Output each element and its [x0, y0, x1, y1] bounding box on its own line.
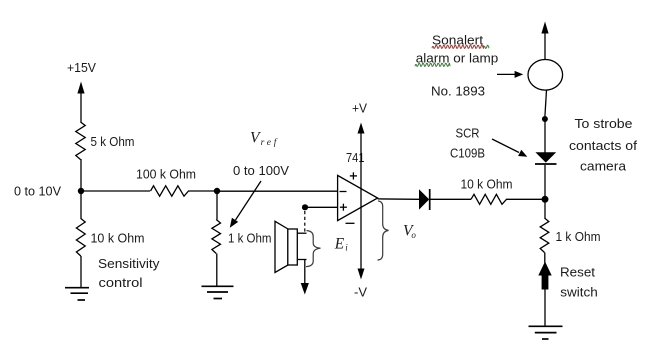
svg-text:0 to 100V: 0 to 100V: [233, 163, 289, 178]
resistor R2 10k sensitivity: [76, 191, 85, 256]
wire R4 to ground: [216, 254, 218, 287]
svg-text:E: E: [334, 235, 345, 252]
label Vo: [403, 223, 416, 241]
resistor R6 1k: [540, 218, 549, 253]
op-amp U1 741: [338, 175, 378, 220]
svg-text:contacts of: contacts of: [569, 138, 637, 153]
svg-text:camera: camera: [580, 159, 627, 174]
label Reset switch: [560, 265, 598, 300]
wire R3 to node B: [188, 190, 217, 192]
svg-text:To strobe: To strobe: [575, 116, 633, 131]
svg-text:10 k Ohm: 10 k Ohm: [91, 231, 145, 246]
svg-text:+V: +V: [352, 101, 367, 116]
callout arrow to SCR: [492, 139, 527, 157]
spellcheck squiggle red (Sonalert): [432, 45, 484, 48]
output arrow (top): [541, 22, 548, 60]
svg-text:100 k Ohm: 100 k Ohm: [136, 166, 196, 181]
svg-text:SCR: SCR: [456, 126, 480, 141]
resistor R4 1k: [212, 191, 221, 254]
sonalert lamp symbol: [528, 60, 563, 91]
ground (middle): [202, 286, 234, 298]
svg-text:o: o: [411, 230, 416, 240]
label SCR C109B: [450, 126, 485, 161]
svg-text:switch: switch: [560, 285, 598, 300]
op-amp inverting input sign: [340, 191, 347, 193]
node A (0 to 10V junction): [78, 188, 84, 194]
label Vref: [250, 129, 278, 148]
svg-text:10 k Ohm: 10 k Ohm: [461, 176, 513, 191]
SCR Q1 C109B: [535, 152, 557, 164]
svg-text:control: control: [99, 275, 143, 290]
op-amp +V pin sign: [350, 172, 357, 179]
wire node E to SCR: [544, 121, 546, 153]
wire microphone to arrow: [301, 260, 309, 295]
resistor R1 5k: [76, 122, 85, 160]
+15V arrow: [77, 82, 84, 123]
wire SCR to node D: [544, 165, 546, 200]
label Sonalert alarm or lamp No. 1893: [416, 33, 499, 99]
grammar squiggle green (alarm): [415, 63, 450, 66]
svg-text:+15V: +15V: [67, 60, 96, 75]
microphone terminals: [297, 233, 306, 259]
node D (SCR cathode junction): [542, 196, 549, 203]
label Ei: [334, 235, 348, 252]
node E: [542, 116, 548, 122]
diode D1: [419, 189, 430, 210]
-V supply arrow: [358, 198, 365, 280]
svg-text:-V: -V: [354, 285, 367, 300]
label Sensitivity control: [98, 256, 160, 290]
svg-text:1 k Ohm: 1 k Ohm: [228, 230, 272, 245]
wire node D to R6: [544, 199, 546, 219]
resistor R5 10k: [471, 194, 507, 204]
svg-text:C109B: C109B: [450, 146, 485, 161]
wire non-inverting input: [305, 206, 338, 208]
wire R2 to ground: [80, 256, 82, 288]
ground (left): [65, 288, 89, 300]
node C (Ei pickup): [302, 204, 308, 210]
svg-text:5 k Ohm: 5 k Ohm: [91, 134, 135, 149]
svg-text:1 k Ohm: 1 k Ohm: [556, 229, 601, 244]
brace Vo: [378, 201, 389, 260]
svg-text:Sensitivity: Sensitivity: [98, 256, 160, 271]
callout arrow to lamp: [497, 71, 523, 78]
wire op-amp output: [378, 198, 419, 200]
svg-text:ref: ref: [261, 137, 278, 148]
wire D1 to R5: [430, 198, 471, 200]
svg-text:0 to 10V: 0 to 10V: [14, 183, 61, 198]
microphone (speaker) body: [275, 221, 297, 272]
svg-text:No. 1893: No. 1893: [431, 84, 485, 99]
label To strobe contacts of camera: [569, 116, 637, 173]
wire R1 to node A: [80, 159, 82, 191]
svg-text:Reset: Reset: [560, 265, 595, 280]
wire R5 to node D: [506, 198, 545, 200]
wire node B to op-amp inverting input: [217, 190, 338, 192]
node B (Vref node): [214, 188, 220, 194]
op-amp non-inverting input sign: [340, 204, 347, 211]
reset switch arrow: [538, 253, 551, 327]
+V supply arrow: [358, 123, 365, 199]
wire node A to R3: [81, 190, 150, 192]
brace Ei: [307, 231, 321, 267]
svg-text:741: 741: [346, 150, 365, 165]
wire lamp to node E: [545, 90, 547, 116]
ground (right): [529, 326, 563, 339]
callout arrow 0 to 100V to R4: [230, 181, 261, 228]
svg-text:V: V: [250, 129, 261, 146]
svg-text:alarm or lamp: alarm or lamp: [416, 51, 499, 66]
resistor R3 100k: [151, 186, 189, 196]
op-amp -V pin sign: [346, 222, 355, 224]
dashed wire node C to microphone: [304, 211, 306, 233]
